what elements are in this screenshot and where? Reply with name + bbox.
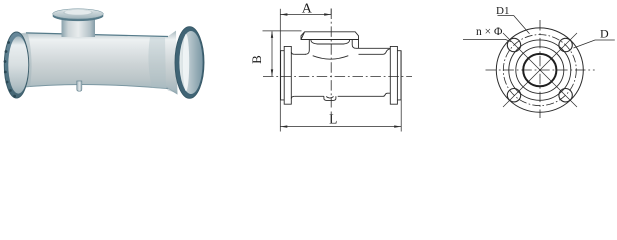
photo: right cone and flange (175, 27, 204, 99)
branch intersection arc (313, 56, 349, 59)
shell step line right of branch (356, 40, 390, 49)
left flange raised face (281, 51, 285, 100)
pipe top line left of branch (295, 53, 306, 55)
hub circle (509, 40, 571, 100)
raised face circle (516, 47, 564, 94)
svg-text:A: A (302, 2, 313, 17)
inner pipe line right of branch with ramp (359, 49, 391, 54)
right flange raised face (397, 51, 401, 100)
photo: top nozzle neck (62, 14, 96, 37)
svg-text:n × Φ: n × Φ (476, 26, 503, 38)
svg-text:D1: D1 (496, 5, 509, 17)
bolt hole upper-left (507, 38, 520, 51)
flange view centerline vertical (539, 20, 541, 118)
centerline branch vertical (330, 9, 332, 115)
drain plug (324, 96, 336, 100)
svg-text:D: D (600, 27, 609, 41)
flange view centerline horizontal (486, 69, 595, 71)
bore circle (523, 54, 556, 86)
dimension A (280, 9, 331, 132)
outer circle D (496, 28, 583, 112)
left flange disk (284, 46, 291, 104)
pipe bottom line right of drain with bump (338, 93, 391, 96)
svg-text:L: L (329, 112, 337, 127)
branch raised face lip (311, 40, 350, 45)
photo: left flange (4, 32, 29, 98)
photo: right cone shadow (166, 87, 177, 94)
photo: top nozzle flange plate (53, 9, 104, 21)
bolt hole lower-right (559, 89, 572, 102)
centerline horizontal (263, 75, 412, 77)
branch neck left wall (305, 40, 309, 55)
photo: drain nozzle (77, 81, 82, 91)
right flange disk (390, 46, 397, 104)
dimension L (280, 51, 401, 132)
flange view diagonal lines (503, 33, 577, 107)
dimension B (263, 31, 302, 77)
bolt hole upper-right (559, 38, 572, 51)
photo: left flange bolt holes (4, 41, 16, 98)
bolt circle D1 (503, 35, 576, 106)
bolt hole lower-left (507, 89, 520, 102)
svg-text:B: B (249, 55, 264, 64)
branch neck right wall (352, 40, 356, 49)
photo: vessel body (16, 31, 178, 95)
pipe bottom line left of drain (295, 95, 324, 97)
left flange hub fillets (291, 52, 295, 99)
branch flange plate (301, 32, 359, 40)
